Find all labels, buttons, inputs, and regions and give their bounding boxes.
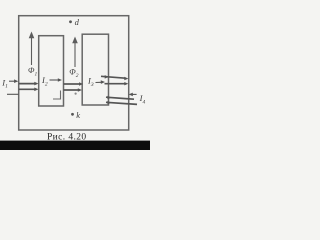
right window: [82, 34, 108, 105]
winding3 wire top: [101, 75, 128, 80]
current arrow I4: [129, 93, 137, 97]
bottom black bar: [0, 141, 150, 150]
flux arrow Phi1: [29, 32, 35, 66]
paper background: [0, 0, 150, 150]
current arrow I2: [50, 78, 63, 82]
winding2 wire top: [64, 82, 84, 86]
winding4 wire bottom: [106, 101, 137, 105]
left window: [39, 36, 64, 106]
winding3 wire bottom: [105, 82, 129, 85]
winding1 wire top: [19, 82, 39, 86]
winding1 wire bottom: [19, 88, 39, 92]
svg-text:d: d: [75, 17, 80, 27]
terminal dot k: [71, 113, 74, 116]
current arrow I3: [96, 80, 106, 84]
flux arrow Phi2: [72, 37, 78, 68]
winding4 wire top: [106, 96, 134, 100]
left lead stub: [7, 93, 19, 95]
current arrow I1: [9, 79, 18, 83]
winding2 wire bottom: [64, 88, 83, 92]
small speck: [75, 93, 77, 95]
core outer outline: [19, 16, 129, 130]
svg-text:k: k: [76, 110, 80, 120]
winding2 lead hook: [53, 91, 61, 100]
terminal dot d: [69, 20, 72, 23]
